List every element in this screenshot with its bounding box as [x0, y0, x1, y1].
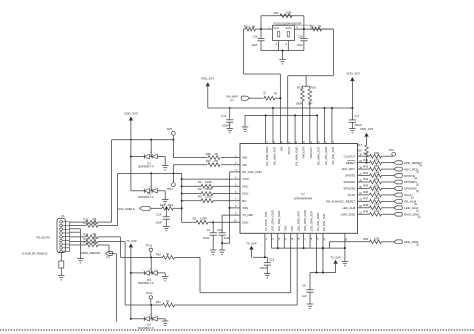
- capacitor C8 1uF: [302, 273, 314, 304]
- pin 41 pad label: [346, 237, 348, 240]
- pin 16 LED_DRV_SUP label: [296, 211, 300, 241]
- svg-text:U7: U7: [301, 192, 305, 196]
- svg-text:0R: 0R: [93, 217, 96, 221]
- resistor R12 0R dsub row: [70, 217, 98, 224]
- svg-text:XIN: XIN: [280, 147, 284, 152]
- pin 15 TXP label: [290, 226, 294, 241]
- resistor R44 10R row: [358, 177, 394, 184]
- wire crystal main node line: [244, 28, 334, 30]
- ground pad 41: [342, 262, 349, 266]
- pin 18 LDO_DRV_SUP label: [309, 211, 313, 241]
- svg-text:0R: 0R: [93, 221, 96, 225]
- svg-text:R20: R20: [244, 25, 249, 29]
- net flag XIN_MSP [2]: [226, 94, 249, 102]
- svg-text:R45: R45: [363, 184, 368, 188]
- svg-text:C13: C13: [221, 114, 226, 118]
- svg-text:VDD_3V3: VDD_3V3: [124, 111, 138, 115]
- svg-text:R50: R50: [363, 237, 368, 241]
- svg-text:DNC: DNC: [242, 220, 248, 224]
- svg-text:130R: 130R: [205, 187, 212, 191]
- svg-text:[1]: [1]: [418, 216, 421, 219]
- pin 33 RX_ANA_SUP label: [316, 141, 320, 165]
- crystal pin number 1: [268, 26, 270, 30]
- ground dsub shell: [58, 276, 65, 280]
- power TX_SUP arrow clamp bus: [126, 239, 137, 319]
- svg-text:DNC: DNC: [242, 184, 248, 188]
- ground C1: [210, 250, 217, 254]
- ground D1: [162, 157, 169, 170]
- svg-text:VCM: VCM: [242, 177, 249, 181]
- resistor R40 10R row: [358, 151, 394, 158]
- svg-text:R16: R16: [84, 240, 89, 244]
- pin 12 LDO_DRV_GND label: [271, 210, 275, 240]
- resistor R22 1M0 feedback: [274, 10, 292, 17]
- svg-text:130R: 130R: [205, 180, 212, 184]
- pin 37 XOUT label: [287, 141, 291, 155]
- svg-text:R26: R26: [206, 152, 211, 156]
- wire bottom pin stubs to bus: [278, 233, 317, 248]
- pin 40 RX_ANA_GND label: [265, 141, 269, 166]
- resistor R15 0R dsub row: [70, 237, 98, 244]
- power VDD_3V3 arrow rail A west: [201, 76, 215, 108]
- resistor R20 0R xtal left: [244, 25, 256, 32]
- svg-text:SPISOMI: SPISOMI: [343, 187, 355, 191]
- capacitor C16 15pF: [252, 28, 265, 51]
- pin 2 INP label: [235, 162, 247, 167]
- svg-text:2u2F: 2u2F: [203, 236, 210, 240]
- pin 29 RESET label: [346, 160, 363, 165]
- crystal X1 FOX oscillator body: [272, 25, 294, 40]
- svg-text:PD_ALM/ADC_RESET: PD_ALM/ADC_RESET: [326, 199, 355, 203]
- wire thermal pad 41 to ground: [344, 233, 346, 261]
- wire LED driver ground bus: [271, 233, 345, 249]
- wire top pin 33 to vdd rail A: [324, 107, 326, 144]
- svg-text:CLKOUT: CLKOUT: [344, 154, 356, 158]
- svg-text:SPISOMI: SPISOMI: [404, 187, 417, 191]
- svg-text:10R: 10R: [374, 177, 379, 181]
- resistor R17 10K pullup: [357, 143, 368, 164]
- diode D2 BAV99W-7-F: [131, 173, 162, 198]
- svg-text:15pF: 15pF: [297, 43, 303, 47]
- resistor R22B 130R pin6: [182, 187, 240, 195]
- svg-text:R43: R43: [363, 171, 368, 175]
- crystal part number FOXSV1180/4-000T&R: [274, 22, 313, 26]
- svg-text:R12: R12: [84, 218, 89, 222]
- svg-text:RX_ANA_SUP: RX_ANA_SUP: [316, 146, 320, 165]
- resistor R27 0R INP: [173, 159, 240, 166]
- pin 10 DNC label: [234, 220, 249, 225]
- wire APE_PDN from pin 20: [322, 233, 324, 249]
- svg-text:0R: 0R: [215, 159, 218, 163]
- wire APE_PDN row: [329, 242, 369, 248]
- resistor R26 0R INN: [173, 152, 240, 159]
- resistor R16 0R dsub row: [70, 240, 98, 247]
- ground C17: [349, 129, 356, 133]
- svg-text:VSS: VSS: [242, 206, 248, 210]
- svg-text:AFE4490RHAR: AFE4490RHAR: [294, 197, 312, 201]
- svg-text:RX_ANA_GND: RX_ANA_GND: [265, 147, 269, 166]
- svg-text:VDD_3V3: VDD_3V3: [360, 127, 374, 131]
- net flag LED_ALM [1]: [394, 206, 419, 212]
- svg-text:TP8: TP8: [167, 127, 172, 131]
- pin 11 TX_CTRL_SUP label: [264, 211, 268, 240]
- svg-text:BAV99W-7-F: BAV99W-7-F: [138, 195, 154, 199]
- svg-text:DNC: DNC: [242, 192, 248, 196]
- svg-text:R31: R31: [156, 300, 161, 304]
- svg-text:R2: R2: [198, 180, 202, 184]
- resistor R48 10R row: [358, 203, 394, 210]
- svg-text:R44: R44: [363, 177, 368, 181]
- svg-text:R13: R13: [84, 221, 89, 225]
- resistor R13 0R dsub row: [70, 221, 98, 228]
- svg-text:TX_REF: TX_REF: [242, 213, 253, 217]
- pin 28 ADC_RDY label: [342, 166, 363, 171]
- resistor R24 0R4 shield: [151, 203, 182, 210]
- svg-text:TXP: TXP: [290, 226, 294, 232]
- svg-text:R22: R22: [274, 11, 280, 15]
- svg-text:[2]: [2]: [416, 171, 419, 174]
- ground rail B left: [242, 115, 249, 131]
- svg-text:C8: C8: [302, 284, 306, 288]
- svg-text:0R: 0R: [252, 25, 255, 29]
- power VDD_3V3 arrow clamp: [124, 111, 138, 191]
- pin 6 DNC label: [235, 191, 248, 196]
- resistor R50 10R APE_PDN: [363, 237, 394, 244]
- test point TP8: [167, 127, 176, 135]
- svg-text:R15: R15: [297, 85, 303, 89]
- svg-text:10nF: 10nF: [156, 221, 163, 225]
- pin 27 SPISTE label: [345, 173, 362, 178]
- pin 1 INN label: [235, 155, 247, 160]
- pin 8 VSS label: [235, 205, 248, 210]
- svg-text:0R: 0R: [166, 252, 169, 256]
- capacitor C1 2u2F: [203, 221, 217, 250]
- wire top pin 35 to gnd rail: [294, 114, 296, 143]
- ground crystal caps: [279, 50, 286, 64]
- wire WIRE_MEM net down: [115, 253, 117, 321]
- resistor R15 100R vertical: [296, 85, 305, 143]
- svg-text:0R: 0R: [275, 91, 278, 94]
- svg-text:RXOUTN: RXOUTN: [302, 147, 306, 159]
- pin 17 LDO_DRV_GND label: [303, 210, 307, 240]
- wire crystal pins to ground rail: [261, 41, 304, 51]
- svg-text:WIRE_MEM-BP: WIRE_MEM-BP: [81, 251, 100, 255]
- wire top pin 33 to gnd rail: [316, 114, 318, 143]
- pin 35 RXOUTN label: [302, 141, 306, 159]
- wire INN clamp net: [112, 136, 175, 223]
- svg-text:R48: R48: [363, 203, 368, 207]
- svg-text:1uF: 1uF: [302, 294, 307, 298]
- svg-text:10R: 10R: [307, 101, 312, 105]
- svg-text:VCM_SHIELD: VCM_SHIELD: [118, 207, 135, 211]
- capacitor C18 15pF: [297, 28, 308, 51]
- svg-text:10R: 10R: [374, 209, 379, 213]
- pin 36 RX_ANA_GND label: [294, 141, 298, 166]
- pin 34 RXOUTP label: [309, 141, 313, 159]
- crystal pin number 2: [276, 42, 278, 46]
- svg-text:LED_ALM: LED_ALM: [342, 206, 356, 210]
- svg-text:RX_DIG_GND: RX_DIG_GND: [316, 213, 320, 231]
- svg-text:R27: R27: [206, 159, 211, 163]
- wire dsub row4 to TXN path: [98, 242, 125, 306]
- svg-text:10R: 10R: [374, 203, 379, 207]
- svg-text:DIAG_END: DIAG_END: [341, 212, 356, 216]
- svg-text:LED_DRV_SUP: LED_DRV_SUP: [296, 211, 300, 231]
- wire analog ground rail B: [245, 114, 317, 116]
- svg-text:C19: C19: [269, 258, 275, 262]
- wire XIN from crystal to IC pin 38: [244, 29, 282, 143]
- svg-text:TXN: TXN: [284, 226, 288, 232]
- ground dsub pins: [77, 259, 84, 263]
- crystal pin number 4: [285, 42, 287, 46]
- pin 22 LED_ALM label: [342, 205, 362, 210]
- wire INP clamp net: [118, 165, 182, 226]
- svg-text:10K: 10K: [357, 149, 362, 153]
- diode D1 BAV99W-7-F: [130, 140, 162, 169]
- net flag WIRE_MEM-BP [2]: [81, 251, 113, 259]
- svg-text:SPISTE: SPISTE: [404, 174, 415, 178]
- wire crystal feedback loop: [261, 16, 304, 29]
- svg-text:XOUT: XOUT: [287, 146, 291, 154]
- svg-text:VDD_3V3: VDD_3V3: [201, 76, 215, 80]
- connector U6 D-SUB 9P body: [57, 215, 70, 253]
- sheet border dotted: [0, 329, 474, 331]
- resistor R23 130R pin7: [182, 194, 240, 202]
- svg-text:R41: R41: [363, 158, 368, 162]
- test point TP10: [167, 183, 176, 191]
- resistor R11 0R XIN_MSP: [250, 90, 281, 100]
- svg-text:TP10: TP10: [167, 187, 174, 191]
- svg-text:TX_SUP: TX_SUP: [330, 255, 341, 259]
- svg-text:0R: 0R: [318, 25, 321, 29]
- wire dsub row1 to INN: [98, 221, 112, 223]
- pin 30 CLKOUT label: [344, 154, 363, 159]
- svg-text:100nF: 100nF: [259, 266, 267, 270]
- svg-text:RX_ANA_GND: RX_ANA_GND: [242, 170, 261, 174]
- pin 7 BG label: [235, 198, 246, 203]
- svg-text:R24: R24: [160, 203, 166, 207]
- ground D3: [162, 273, 169, 281]
- test point TP13: [146, 291, 153, 305]
- svg-text:ADC_RDY: ADC_RDY: [342, 167, 356, 171]
- svg-text:C14: C14: [156, 212, 162, 216]
- svg-text:10R: 10R: [374, 170, 379, 174]
- svg-text:R2: R2: [198, 187, 202, 191]
- svg-text:R49: R49: [363, 209, 368, 213]
- svg-text:0R: 0R: [215, 152, 218, 156]
- wire dsub row2 to INP: [98, 225, 118, 227]
- resistor R49 10R row: [358, 209, 394, 216]
- wire top pin 40 to gnd rail: [265, 114, 267, 143]
- resistor R45 10R row: [358, 183, 394, 190]
- wire top pin 31 to vdd rail: [331, 107, 333, 144]
- svg-text:TP11: TP11: [146, 244, 153, 248]
- svg-text:10R: 10R: [374, 196, 379, 200]
- ground C8: [307, 304, 314, 308]
- net flag VCM_SHIELD: [118, 206, 151, 211]
- wire TXP row1 net: [121, 248, 291, 293]
- svg-text:INN: INN: [242, 156, 247, 160]
- svg-text:0R: 0R: [93, 237, 96, 241]
- crystal pin number 3: [296, 26, 298, 30]
- svg-text:RX_ANA_GND: RX_ANA_GND: [294, 147, 298, 166]
- resistor R42 10R row: [358, 164, 394, 171]
- resistor R30 0R row1: [156, 252, 175, 259]
- svg-text:100nF: 100nF: [222, 124, 230, 128]
- svg-text:D-SUB_9P_FEMALE: D-SUB_9P_FEMALE: [22, 251, 48, 255]
- svg-text:10R: 10R: [374, 237, 379, 241]
- svg-text:R2: R2: [198, 194, 202, 198]
- svg-text:R47: R47: [363, 197, 368, 201]
- wire dsub middle pins to ground: [70, 229, 81, 259]
- svg-text:1M0: 1M0: [286, 10, 292, 14]
- pin 38 XIN label: [280, 141, 284, 152]
- svg-text:X1/C: X1/C: [273, 26, 279, 30]
- wire TX_CTRL_SUP pin 11: [253, 233, 267, 258]
- svg-text:R16: R16: [311, 85, 317, 89]
- svg-text:RX_ANA_SUP: RX_ANA_SUP: [272, 146, 276, 165]
- svg-text:R30: R30: [156, 252, 161, 256]
- svg-text:C15: C15: [217, 228, 223, 232]
- svg-text:0R4: 0R4: [168, 203, 174, 207]
- net flag SPISIMO [2]: [394, 180, 419, 186]
- svg-text:VDD_3V3: VDD_3V3: [346, 72, 360, 76]
- svg-text:10R: 10R: [374, 164, 379, 168]
- pin 26 SPISIMO label: [343, 179, 362, 184]
- net flag APE_PDN [1]: [394, 240, 420, 246]
- svg-text:SCLK: SCLK: [348, 193, 356, 197]
- wire dsub row3 to TXP path: [98, 237, 121, 258]
- svg-text:[2]: [2]: [231, 99, 234, 102]
- resistor R46 10R row: [358, 190, 394, 197]
- svg-text:C1: C1: [207, 228, 211, 232]
- svg-text:LED_DRV_GND: LED_DRV_GND: [277, 211, 281, 232]
- wire XOUT from crystal to IC pin 37: [288, 29, 334, 143]
- pin 9 TX_REF label: [235, 212, 253, 217]
- ground C15: [219, 242, 226, 254]
- capacitor C15 2u2F: [217, 228, 230, 250]
- pin 25 SPISOMI label: [343, 186, 362, 191]
- net flag SPISOMI [2]: [394, 187, 419, 193]
- test point TP6: [389, 148, 396, 156]
- svg-text:[1]: [1]: [419, 164, 422, 167]
- svg-text:R15: R15: [84, 237, 89, 241]
- svg-text:RX_DIG_GND: RX_DIG_GND: [324, 147, 328, 165]
- capacitor C17 100nF: [349, 108, 362, 129]
- capacitor C19 100nF: [259, 257, 274, 273]
- svg-text:[2]: [2]: [416, 190, 419, 193]
- svg-text:LDO_DRV_GND: LDO_DRV_GND: [303, 210, 307, 231]
- svg-text:[1]: [1]: [417, 243, 420, 246]
- net flag APE_RESET [1]: [394, 161, 423, 167]
- wire top pin 39 to vdd rail: [272, 107, 274, 144]
- ground D2: [162, 191, 169, 204]
- wire TX_SUP node right: [310, 247, 336, 274]
- svg-text:C16: C16: [253, 35, 258, 39]
- resistor R21 0R xtal right: [310, 25, 334, 32]
- svg-text:LDO_DRV_SUP: LDO_DRV_SUP: [309, 211, 313, 232]
- op-amp U7 AFE4490 body: [240, 144, 358, 234]
- svg-text:15pF: 15pF: [252, 43, 258, 47]
- ground C13: [226, 129, 233, 133]
- wire VDD_3V3 rail A: [208, 107, 353, 109]
- resistor R16 10R vertical: [307, 85, 316, 143]
- svg-text:RESET: RESET: [346, 161, 356, 165]
- test point TP11: [146, 244, 153, 258]
- wire TXN row2 net: [125, 248, 297, 306]
- svg-text:XIN_MSP: XIN_MSP: [226, 94, 238, 98]
- svg-text:TX_SUP: TX_SUP: [126, 239, 137, 243]
- svg-text:[2]: [2]: [107, 255, 110, 259]
- svg-text:TX_CTRL_SUP: TX_CTRL_SUP: [264, 211, 268, 231]
- pin 39 RX_ANA_SUP label: [272, 141, 276, 165]
- svg-text:SPISTE: SPISTE: [345, 174, 355, 178]
- diode D3 BAV99W-7-F: [130, 257, 162, 285]
- pin 5 DNC label: [235, 184, 248, 189]
- svg-text:C18: C18: [298, 35, 303, 39]
- svg-text:BG: BG: [242, 199, 246, 203]
- pin 13 LED_DRV_GND label: [277, 211, 281, 241]
- svg-text:130R: 130R: [205, 194, 212, 198]
- resistor R43 10R row: [358, 170, 394, 177]
- svg-text:10R: 10R: [374, 151, 379, 155]
- net flag SPISTE [2]: [394, 174, 418, 180]
- power TX_SUP arrow left IC: [246, 241, 257, 257]
- pin 4 VCM label: [235, 176, 249, 181]
- pin 20 RX_DIG_SUP label: [322, 213, 326, 240]
- net flag SCLK [2]: [394, 193, 414, 199]
- svg-text:INP: INP: [242, 163, 247, 167]
- svg-text:10R: 10R: [374, 190, 379, 194]
- svg-text:BAV99W-7-F: BAV99W-7-F: [138, 164, 154, 168]
- svg-text:0R: 0R: [93, 240, 96, 244]
- net flag ADC_RDY [2]: [394, 167, 419, 173]
- svg-text:SPISIMO: SPISIMO: [343, 180, 356, 184]
- label D-SUB_9P_FEMALE: [22, 251, 48, 255]
- wire shield vertical bus: [181, 173, 183, 222]
- svg-text:10R: 10R: [374, 157, 379, 161]
- pin 21 DIAG_END label: [341, 212, 363, 217]
- diode D4 BAV99W-7-F: [130, 305, 162, 330]
- power VDD_3V3 arrow reset pullup: [360, 127, 374, 145]
- resistor R31 0R row2: [156, 300, 175, 307]
- svg-text:RX_DIG_SUP: RX_DIG_SUP: [322, 213, 326, 231]
- svg-text:R14: R14: [84, 232, 89, 236]
- label RS-232-P9: [37, 236, 51, 240]
- svg-text:TP13: TP13: [146, 291, 153, 295]
- svg-text:R46: R46: [363, 190, 368, 194]
- svg-text:RS-232-P9: RS-232-P9: [37, 236, 51, 240]
- svg-text:BAV99W-7-F: BAV99W-7-F: [138, 281, 154, 285]
- svg-text:R11: R11: [264, 90, 267, 95]
- power TX_SUP arrow right: [330, 255, 341, 272]
- resistor R47 10R row: [358, 196, 394, 203]
- svg-text:TP6: TP6: [389, 148, 394, 152]
- svg-text:0R: 0R: [93, 232, 96, 236]
- svg-text:TX_SUP: TX_SUP: [246, 241, 257, 245]
- ground C14: [163, 227, 170, 231]
- svg-text:RX_DIG_SUP: RX_DIG_SUP: [331, 146, 335, 164]
- wire RX_ANA_GND pin3 pin8 bus: [222, 172, 240, 243]
- pin 19 RX_DIG_GND label: [316, 213, 320, 240]
- svg-text:0R: 0R: [166, 300, 169, 304]
- pin 3 RX_ANA_GND label: [235, 169, 261, 174]
- net flag PD_ALM [1]: [394, 199, 418, 205]
- resistor R41 10R row: [358, 157, 394, 164]
- pin 32 RX_DIG_GND label: [324, 141, 328, 165]
- svg-text:R2: R2: [193, 217, 197, 221]
- wire VCM pin 4: [182, 178, 240, 180]
